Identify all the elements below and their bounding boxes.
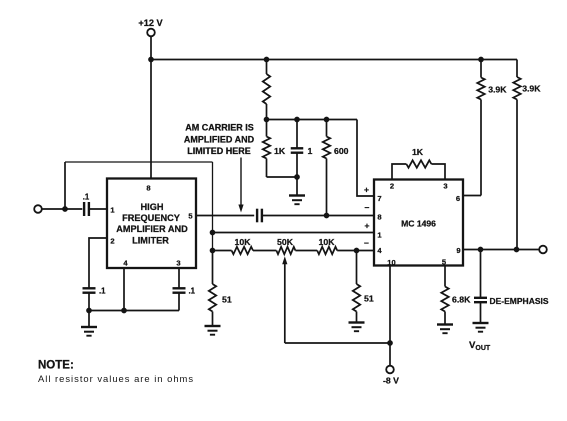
pin 4 label (amplifier) <box>123 259 128 268</box>
wire: carrier-null line to pin 1 of MC1496 <box>213 232 375 234</box>
pin 3 label (MC1496) <box>443 182 447 191</box>
junction: bus / 1 uF capacitor <box>294 117 300 123</box>
resistor 51 (left) <box>209 251 232 327</box>
amplifier block title <box>116 202 188 246</box>
svg-text:DE-EMPHASIS: DE-EMPHASIS <box>490 296 549 306</box>
wire: pin 3 stub <box>178 268 180 288</box>
potentiometer 50K <box>276 237 295 254</box>
wire: ground bus <box>89 310 179 312</box>
svg-text:1K: 1K <box>274 146 286 156</box>
svg-text:51: 51 <box>222 295 232 305</box>
ground (51 right) <box>349 323 365 332</box>
resistor 1K (gain set) <box>392 147 445 180</box>
wire: pin 10 to -8V <box>389 266 391 366</box>
junction: bus / 600 resistor <box>324 117 330 123</box>
junction: top bus / dropping resistor <box>264 57 270 63</box>
pin 5 label (amplifier) <box>188 212 193 221</box>
svg-text:.1: .1 <box>83 193 90 202</box>
junction: input node <box>62 206 68 212</box>
polarity mark + (pin 7) <box>364 185 369 195</box>
pin 7 label (MC1496) <box>377 194 381 203</box>
svg-text:1K: 1K <box>412 147 424 157</box>
annotation: AM CARRIER IS AMPLIFIED AND LIMITED HERE <box>184 123 255 157</box>
svg-text:3: 3 <box>176 259 180 268</box>
svg-text:−: − <box>365 203 370 213</box>
polarity mark + (pin 1) <box>365 221 370 231</box>
svg-text:3.9K: 3.9K <box>522 84 541 94</box>
junction: feedback / pin 1 line <box>210 230 216 236</box>
wire: bypass cap to ground bus <box>88 293 90 311</box>
note heading <box>38 360 74 372</box>
pin 6 label (MC1496) <box>456 194 460 203</box>
svg-text:10: 10 <box>387 258 395 267</box>
svg-text:50K: 50K <box>277 237 294 247</box>
wire: wiper to -8V node <box>285 342 390 344</box>
capacitor (carrier coupling) <box>257 209 262 223</box>
resistor 3.9K (left) <box>477 60 507 196</box>
pin 1 label (MC1496) <box>377 230 382 239</box>
resistor 10K (left) <box>232 237 253 254</box>
pin 5 label (MC1496) <box>442 258 447 267</box>
wire: top supply bus <box>151 59 517 61</box>
MC 1496 label <box>401 219 436 229</box>
svg-text:−: − <box>364 238 369 248</box>
capacitor DE-EMPHASIS <box>474 250 549 324</box>
wire: coupling cap to pin 8 of MC1496 <box>262 215 374 217</box>
junction: 3.9K right / output <box>514 247 520 253</box>
output terminal <box>539 246 547 254</box>
resistor 600 <box>323 120 349 216</box>
pin 4 label (MC1496) <box>377 246 382 255</box>
svg-text:7: 7 <box>377 194 381 203</box>
+12V supply terminal <box>138 18 163 37</box>
svg-text:.1: .1 <box>189 287 196 296</box>
svg-text:AMPLIFIER AND: AMPLIFIER AND <box>116 224 188 234</box>
wire: pin 6 to 3.9K <box>463 195 481 197</box>
junction: top bus / 3.9K left <box>478 57 484 63</box>
wire: input to coupling capacitor <box>42 208 83 210</box>
input terminal <box>34 205 42 213</box>
wire: row left segment <box>213 250 232 252</box>
svg-text:NOTE:: NOTE: <box>38 360 74 372</box>
ground (decoupling) <box>289 177 305 204</box>
pin 10 label (MC1496) <box>387 258 395 267</box>
wire: feedback line down to carrier-null network <box>212 162 214 250</box>
pin 8 label (MC1496) <box>377 213 381 222</box>
wire: row to pin 4 of MC1496 <box>337 250 374 252</box>
junction: de-emphasis tap <box>478 247 484 253</box>
potentiometer wiper arrow <box>282 256 287 343</box>
svg-text:All resistor values are in ohm: All resistor values are in ohms <box>38 373 194 384</box>
wire: feedback line up from input node <box>64 162 66 209</box>
svg-text:6.8K: 6.8K <box>452 295 471 305</box>
wire: capacitor to pin 1 of amplifier <box>89 208 107 210</box>
svg-text:LIMITED HERE: LIMITED HERE <box>187 146 251 156</box>
svg-text:AMPLIFIED AND: AMPLIFIED AND <box>184 135 255 145</box>
svg-text:FREQUENCY: FREQUENCY <box>122 213 180 223</box>
junction: bus / 1K resistor <box>264 117 270 123</box>
capacitor 1 <box>291 120 313 178</box>
junction: ground bus left <box>86 308 92 314</box>
resistor 51 (right) <box>353 251 374 323</box>
svg-text:-8 V: -8 V <box>383 376 399 386</box>
resistor 3.9K (right) <box>513 60 541 250</box>
svg-text:AM CARRIER IS: AM CARRIER IS <box>185 123 254 133</box>
junction: 600 resistor / signal line <box>324 213 330 219</box>
junction: +12V rail tap <box>148 57 154 63</box>
wire: row segment 3 <box>295 250 317 252</box>
junction: pin 4 / ground bus <box>121 308 127 314</box>
pin 2 label (amplifier) <box>110 237 114 246</box>
svg-text:MC 1496: MC 1496 <box>401 219 436 229</box>
svg-text:10K: 10K <box>235 237 252 247</box>
wire: +12V down to pin 8 of amplifier <box>150 36 152 178</box>
svg-text:2: 2 <box>390 182 394 191</box>
svg-text:LIMITER: LIMITER <box>132 236 169 246</box>
svg-text:51: 51 <box>364 294 374 304</box>
ground (6.8K) <box>437 325 453 334</box>
resistor 6.8K <box>441 266 471 325</box>
wire: pin 3 cap to ground bus <box>178 293 180 311</box>
svg-text:8: 8 <box>377 213 381 222</box>
junction: pin 10 / wiper return <box>387 340 393 346</box>
label VOUT <box>469 340 491 352</box>
wire: 1K bottom to capacitor junction <box>267 176 298 178</box>
junction: row right / 51 resistor <box>354 248 360 254</box>
wire: decoupling bus <box>267 119 358 121</box>
svg-text:10K: 10K <box>319 237 336 247</box>
svg-text:HIGH: HIGH <box>141 202 164 212</box>
junction: capacitor bottom <box>294 174 300 180</box>
svg-text:+12 V: +12 V <box>138 18 163 28</box>
svg-text:3: 3 <box>443 182 447 191</box>
svg-text:9: 9 <box>456 246 460 255</box>
op-amp block: HIGH FREQUENCY AMPLIFIER AND LIMITER <box>107 179 196 269</box>
polarity mark - (pin 4) <box>364 238 369 248</box>
wire: pin 9 output line <box>463 249 539 251</box>
pin 9 label (MC1496) <box>456 246 460 255</box>
resistor 10K (right) <box>317 237 337 254</box>
wire: row segment 2 <box>253 250 276 252</box>
svg-text:+: + <box>365 221 370 231</box>
capacitor .1 (input coupling) <box>83 193 90 217</box>
ground (51 left) <box>205 326 221 335</box>
wire: pin 4 stub <box>123 268 125 311</box>
note text <box>38 373 194 384</box>
svg-text:+: + <box>364 185 369 195</box>
svg-text:.1: .1 <box>99 287 106 296</box>
svg-text:600: 600 <box>334 146 349 156</box>
pin 2 label (MC1496) <box>390 182 394 191</box>
svg-text:2: 2 <box>110 237 114 246</box>
pin 1 label (amplifier) <box>110 206 115 215</box>
pin 3 label (amplifier) <box>176 259 180 268</box>
wire: amplifier pin 5 output <box>196 215 254 217</box>
ground (de-emphasis) <box>473 323 489 332</box>
wire: feedback line top <box>65 161 213 163</box>
junction: null network left <box>210 248 216 254</box>
polarity mark - (pin 8) <box>365 203 370 213</box>
capacitor .1 (pin 3 bypass) <box>173 287 196 296</box>
capacitor .1 (pin 2 bypass) <box>83 287 107 296</box>
resistor 1K <box>263 120 286 178</box>
svg-text:3.9K: 3.9K <box>488 85 507 95</box>
-8V supply terminal <box>383 366 399 386</box>
svg-text:6: 6 <box>456 194 460 203</box>
IC U1: MC 1496 <box>374 180 463 266</box>
wire: bus to pin 7 of MC1496 <box>357 120 374 197</box>
wire: pin 2 to bypass capacitor <box>89 238 107 288</box>
svg-text:8: 8 <box>146 184 150 193</box>
pin 8 label (amplifier) <box>146 184 150 193</box>
annotation arrow <box>238 158 243 213</box>
svg-text:1: 1 <box>308 146 313 156</box>
resistor (dropping, unlabeled) <box>263 60 270 120</box>
ground (amplifier bypass) <box>81 311 97 336</box>
